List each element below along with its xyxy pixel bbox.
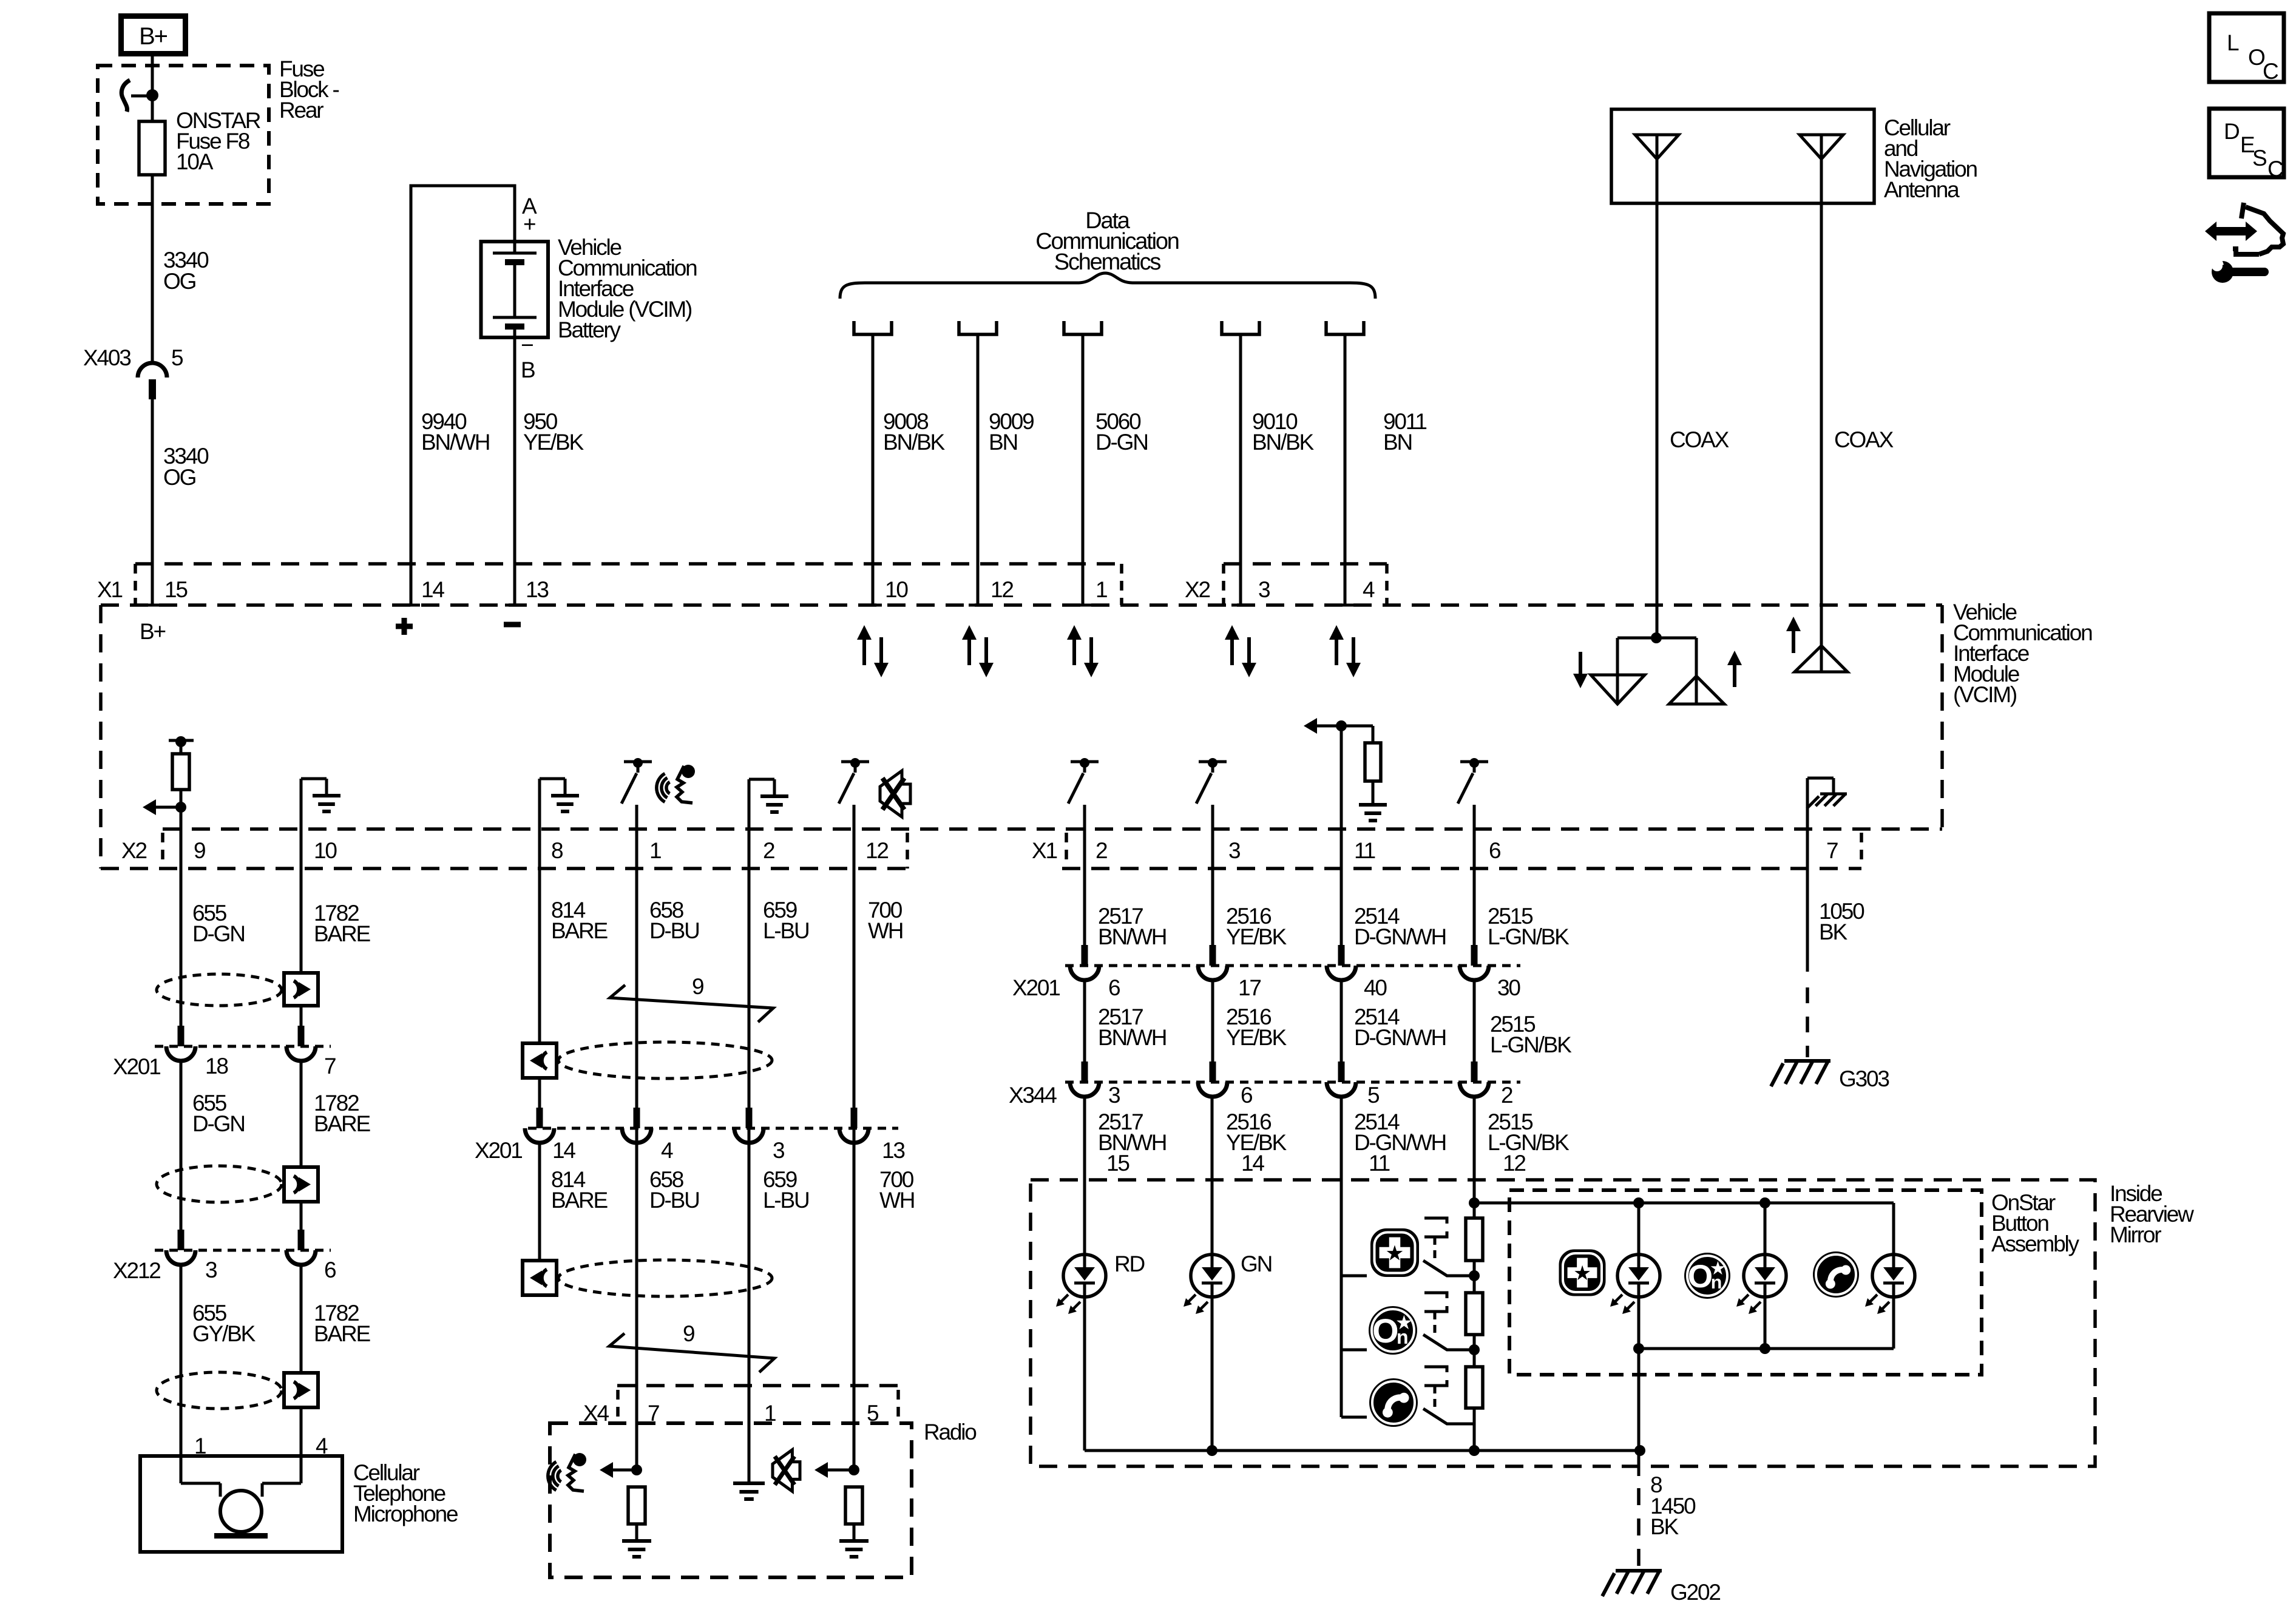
svg-text:+: +	[523, 212, 535, 237]
svg-text:14: 14	[421, 577, 444, 602]
svg-text:6: 6	[1108, 975, 1120, 1000]
svg-text:Mirror: Mirror	[2110, 1222, 2161, 1247]
svg-text:BN/WH: BN/WH	[421, 430, 489, 455]
svg-text:5: 5	[1367, 1083, 1380, 1108]
svg-text:3: 3	[1258, 577, 1270, 602]
svg-text:D-GN: D-GN	[192, 1111, 245, 1136]
svg-text:D-GN/WH: D-GN/WH	[1354, 1130, 1446, 1155]
svg-text:X2: X2	[1185, 577, 1210, 602]
svg-text:B+: B+	[140, 619, 165, 644]
svg-text:X344: X344	[1009, 1083, 1057, 1108]
svg-text:Battery: Battery	[558, 317, 621, 342]
svg-text:(VCIM): (VCIM)	[1953, 682, 2017, 707]
svg-text:YE/BK: YE/BK	[1226, 924, 1287, 949]
svg-text:3: 3	[205, 1258, 217, 1282]
svg-text:BN: BN	[989, 430, 1017, 455]
svg-text:6: 6	[324, 1258, 336, 1282]
svg-text:BN/WH: BN/WH	[1098, 1025, 1166, 1050]
svg-text:11: 11	[1369, 1151, 1390, 1176]
svg-text:BK: BK	[1819, 919, 1847, 944]
svg-text:L-BU: L-BU	[763, 918, 809, 943]
svg-text:Antenna: Antenna	[1884, 177, 1960, 202]
svg-text:1: 1	[1096, 577, 1107, 602]
svg-text:D-BU: D-BU	[649, 918, 699, 943]
svg-text:S: S	[2252, 146, 2266, 171]
svg-text:9: 9	[194, 838, 205, 863]
svg-text:★: ★	[1573, 1262, 1591, 1285]
svg-text:12: 12	[865, 838, 888, 863]
svg-text:Schematics: Schematics	[1054, 249, 1161, 275]
svg-text:D-BU: D-BU	[649, 1188, 699, 1213]
svg-text:3: 3	[773, 1138, 784, 1163]
svg-text:7: 7	[1826, 838, 1838, 863]
svg-text:D-GN/WH: D-GN/WH	[1354, 1025, 1446, 1050]
svg-text:7: 7	[324, 1054, 336, 1078]
svg-text:L-GN/BK: L-GN/BK	[1490, 1032, 1572, 1057]
svg-text:14: 14	[1241, 1151, 1264, 1176]
svg-text:BN: BN	[1383, 430, 1412, 455]
svg-text:9: 9	[692, 974, 703, 999]
svg-text:12: 12	[991, 577, 1013, 602]
svg-text:BARE: BARE	[314, 1111, 370, 1136]
svg-text:BARE: BARE	[314, 921, 370, 946]
svg-text:D-GN: D-GN	[1096, 430, 1148, 455]
svg-text:15: 15	[1106, 1151, 1129, 1176]
svg-text:BARE: BARE	[551, 918, 608, 943]
svg-text:Radio: Radio	[924, 1420, 977, 1444]
svg-text:X1: X1	[97, 577, 122, 602]
svg-text:6: 6	[1489, 838, 1500, 863]
svg-text:X201: X201	[1012, 975, 1060, 1000]
svg-text:X212: X212	[113, 1258, 160, 1283]
svg-text:B: B	[521, 357, 535, 382]
svg-text:COAX: COAX	[1670, 427, 1729, 452]
svg-text:X201: X201	[475, 1138, 522, 1163]
svg-text:D-GN: D-GN	[192, 921, 245, 946]
svg-text:10A: 10A	[176, 149, 214, 174]
svg-text:17: 17	[1238, 975, 1261, 1000]
svg-text:Assembly: Assembly	[1991, 1231, 2079, 1256]
svg-text:18: 18	[205, 1054, 228, 1078]
svg-text:BN/BK: BN/BK	[883, 430, 946, 455]
svg-text:G202: G202	[1670, 1580, 1720, 1605]
svg-text:10: 10	[885, 577, 908, 602]
svg-text:2: 2	[1096, 838, 1107, 863]
svg-text:4: 4	[661, 1138, 673, 1163]
svg-text:8: 8	[551, 838, 563, 863]
svg-text:13: 13	[882, 1138, 904, 1163]
svg-text:L-BU: L-BU	[763, 1188, 809, 1213]
svg-text:L-GN/BK: L-GN/BK	[1488, 1130, 1570, 1155]
svg-text:WH: WH	[879, 1188, 914, 1213]
svg-text:n: n	[1397, 1326, 1409, 1348]
svg-text:13: 13	[526, 577, 548, 602]
svg-text:WH: WH	[868, 918, 902, 943]
svg-text:Microphone: Microphone	[353, 1502, 458, 1526]
svg-text:3: 3	[1108, 1083, 1120, 1108]
svg-text:X403: X403	[83, 345, 130, 370]
svg-text:1: 1	[649, 838, 661, 863]
svg-text:L: L	[2227, 30, 2239, 55]
svg-text:6: 6	[1241, 1083, 1252, 1108]
svg-text:L-GN/BK: L-GN/BK	[1488, 924, 1570, 949]
svg-text:X1: X1	[1032, 838, 1057, 863]
svg-text:YE/BK: YE/BK	[523, 430, 584, 455]
svg-text:4: 4	[1363, 577, 1375, 602]
svg-text:GY/BK: GY/BK	[192, 1321, 256, 1346]
svg-text:C: C	[2267, 157, 2283, 181]
svg-text:BARE: BARE	[314, 1321, 370, 1346]
svg-text:−: −	[521, 333, 533, 357]
svg-text:5: 5	[171, 345, 183, 370]
svg-text:2: 2	[1501, 1083, 1512, 1108]
svg-text:40: 40	[1364, 975, 1387, 1000]
svg-text:15: 15	[164, 577, 188, 602]
svg-text:OG: OG	[163, 269, 196, 294]
svg-text:D: D	[2224, 119, 2239, 144]
svg-text:D-GN/WH: D-GN/WH	[1354, 924, 1446, 949]
svg-text:★: ★	[1385, 1242, 1404, 1265]
svg-text:X201: X201	[113, 1054, 160, 1079]
svg-text:OG: OG	[163, 465, 196, 490]
svg-text:GN: GN	[1241, 1251, 1272, 1276]
svg-text:2: 2	[763, 838, 774, 863]
svg-text:B+: B+	[139, 23, 167, 50]
svg-text:n: n	[1711, 1272, 1722, 1293]
svg-text:BN/BK: BN/BK	[1252, 430, 1315, 455]
svg-text:30: 30	[1497, 975, 1520, 1000]
svg-text:14: 14	[552, 1138, 575, 1163]
svg-text:RD: RD	[1114, 1251, 1145, 1276]
svg-text:BK: BK	[1650, 1514, 1679, 1539]
svg-text:Rear: Rear	[279, 98, 323, 123]
svg-text:X2: X2	[121, 838, 146, 863]
svg-text:BN/WH: BN/WH	[1098, 924, 1166, 949]
svg-text:3: 3	[1228, 838, 1240, 863]
svg-text:9: 9	[683, 1321, 694, 1346]
svg-text:12: 12	[1503, 1151, 1525, 1176]
svg-text:YE/BK: YE/BK	[1226, 1025, 1287, 1050]
svg-text:11: 11	[1354, 838, 1375, 863]
svg-text:BARE: BARE	[551, 1188, 608, 1213]
svg-text:C: C	[2263, 59, 2278, 84]
svg-text:G303: G303	[1839, 1066, 1889, 1091]
svg-text:COAX: COAX	[1834, 427, 1894, 452]
svg-text:10: 10	[314, 838, 337, 863]
